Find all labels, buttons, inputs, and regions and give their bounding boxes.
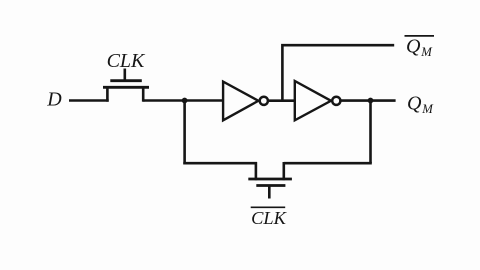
wire: branch up from U1 output to QM-bar output [282,45,394,100]
inverter U2 [295,81,341,120]
junction dot: node X [182,98,188,104]
label QM text [407,92,434,116]
transistor M2 (CLK-bar pass transistor, feedback) [248,162,292,199]
svg-text:QM: QM [407,92,434,116]
wire: M1 drain to node X / U1 input [143,99,222,102]
label QM-bar text [406,35,433,59]
wire: D input to transistor M1 source [69,99,109,102]
svg-text:CLK: CLK [107,50,146,72]
feedback wire: bottom right segment [284,162,372,165]
svg-text:QM: QM [406,35,433,59]
transistor M1 (CLK pass transistor) [103,69,149,102]
svg-text:CLK: CLK [251,208,287,228]
feedback wire: right vertical up to QM node [369,101,372,164]
wire: U2 output to QM output [341,99,396,102]
label CLK (gate of M1) [107,50,146,72]
junction dot: QM feedback tap [368,98,374,104]
node D (input label) [46,89,62,111]
label QM-bar overline [405,35,435,37]
feedback wire: left vertical from node X [183,101,186,165]
wire: U1 output to U2 input [269,99,296,102]
svg-text:D: D [46,89,62,111]
inverter U1 [223,82,268,121]
label CLK-bar overline [251,206,286,208]
label CLK-bar text [251,208,287,228]
feedback wire: bottom left segment [183,162,257,165]
